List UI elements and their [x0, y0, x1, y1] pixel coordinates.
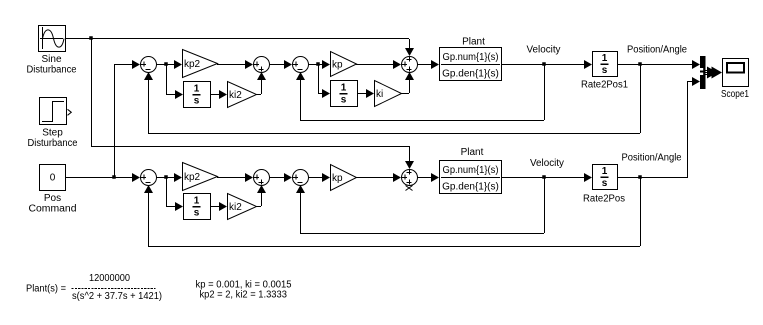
- arrow into Rate2Pos1: [584, 60, 592, 69]
- junction after S1: [164, 62, 168, 66]
- arrow into Rate2Pos: [584, 173, 592, 182]
- svg-text:Plant: Plant: [461, 147, 484, 158]
- junction velocity (bottom): [542, 175, 546, 179]
- svg-text:Gp.den{1}(s): Gp.den{1}(s): [442, 182, 499, 193]
- svg-text:Gp.num{1}(s): Gp.num{1}(s): [443, 52, 499, 63]
- wire integrator to ki2 (bottom): [210, 206, 219, 208]
- wire velocity feedback up into S7: [300, 185, 302, 233]
- sum S5 (bottom position error): [141, 170, 157, 186]
- scope block Scope1: [723, 59, 749, 87]
- wire ki2 output (bottom): [256, 206, 261, 208]
- svg-text:Plant: Plant: [462, 37, 485, 48]
- wire branch down to integrator: [166, 64, 168, 94]
- wire position feedback down (bottom): [640, 177, 642, 246]
- sum S7 (bottom velocity error): [293, 170, 309, 186]
- arrow into sum S2: [245, 60, 253, 69]
- arrow into gain ki (top): [366, 89, 374, 98]
- svg-text:12000000: 12000000: [89, 273, 130, 284]
- arrow into sum S4: [393, 60, 401, 69]
- arrow into sum S2 bottom: [257, 72, 266, 80]
- wire down into top sum4: [409, 39, 411, 49]
- svg-text:ki2: ki2: [229, 202, 242, 213]
- wire into integrator: [166, 94, 175, 96]
- svg-text:s: s: [194, 208, 200, 219]
- arrow into sum S7 bottom (velocity feedback): [296, 185, 305, 193]
- svg-text:Gp.den{1}(s): Gp.den{1}(s): [442, 69, 499, 80]
- vector signal wire mux to scope: [705, 67, 722, 79]
- svg-text:s(s^2 + 37.7s + 1421): s(s^2 + 37.7s + 1421): [72, 291, 162, 302]
- wire sine branch down: [91, 38, 93, 146]
- wire position feedback down (top): [640, 64, 642, 133]
- svg-text:Rate2Pos1: Rate2Pos1: [581, 80, 628, 91]
- wire position feedback up into S1: [148, 80, 150, 133]
- arrow into top sum4 top input: [405, 48, 414, 56]
- wire pos command into top sum1: [114, 64, 132, 66]
- gain kp (bottom): [331, 165, 357, 191]
- wire into integrator (bottom): [166, 206, 175, 208]
- arrow into sum S1 bottom (position feedback): [144, 72, 153, 80]
- svg-text:s: s: [341, 95, 347, 106]
- arrow into sum S3 bottom (velocity feedback): [296, 72, 305, 80]
- wire Plant output Velocity (bottom): [501, 177, 584, 179]
- sum S2 (top PI combine): [254, 57, 270, 73]
- svg-text:Command: Command: [29, 204, 77, 215]
- wire ki2 up to sum S2: [261, 80, 263, 94]
- sum S3 (top velocity error): [293, 57, 309, 73]
- arrow into integrator 1/s (top outer): [175, 90, 183, 99]
- arrow into sum S4 bottom: [405, 72, 414, 80]
- gain ki2 (top): [228, 82, 257, 108]
- arrow into integrator 1/s (bottom): [175, 202, 183, 211]
- sum S8 (bottom disturbance add): [402, 170, 418, 186]
- transfer function block Plant (bottom): [440, 161, 502, 194]
- svg-text:kp: kp: [332, 60, 343, 71]
- svg-text:Position/Angle: Position/Angle: [622, 153, 682, 164]
- wire velocity feedback across (top): [300, 120, 544, 122]
- wire ki up to sum S4: [409, 80, 411, 93]
- arrow into integrator 1/s (top inner): [322, 89, 330, 98]
- wire position (top): [617, 64, 692, 66]
- svg-text:Pos: Pos: [44, 193, 61, 204]
- wire position feedback across (bottom): [148, 246, 640, 248]
- junction pos command branch: [112, 175, 116, 179]
- svg-text:s: s: [602, 178, 608, 189]
- wire integrator to ki2: [210, 94, 219, 96]
- source block Step Disturbance: [40, 98, 67, 125]
- wire sum S7 output: [308, 177, 322, 179]
- wire position (bottom): [617, 177, 688, 179]
- junction after S3: [316, 62, 320, 66]
- arrow into sum S6 bottom: [257, 185, 266, 193]
- arrow into mux input 2: [692, 77, 700, 86]
- wire Plant output Velocity (top): [501, 64, 584, 66]
- unconnected bottom input port of sum S8: [406, 186, 413, 191]
- wire ki2 up to sum S6: [261, 193, 263, 206]
- svg-text:Disturbance: Disturbance: [28, 138, 78, 149]
- gain ki2 (bottom): [228, 194, 257, 220]
- junction sine branch: [89, 36, 93, 40]
- wire branch down to integrator (bottom): [166, 177, 168, 206]
- svg-text:ki2: ki2: [229, 90, 242, 101]
- wire sine to bottom sum4: [91, 146, 409, 148]
- svg-text:Sine: Sine: [41, 54, 61, 65]
- svg-text:Plant(s) =: Plant(s) =: [26, 284, 66, 295]
- svg-text:kp2: kp2: [184, 59, 201, 70]
- transfer function block Plant (top): [440, 48, 502, 81]
- wire sum S4 to Plant: [417, 64, 431, 66]
- svg-text:Gp.num{1}(s): Gp.num{1}(s): [443, 165, 499, 176]
- arrow into sum S8: [393, 173, 401, 182]
- integrator 1/s (bottom): [184, 194, 211, 220]
- arrow into sum S7: [284, 173, 292, 182]
- wire sum S2 to sum S3: [269, 64, 285, 66]
- svg-text:1: 1: [341, 83, 347, 94]
- wire kp2 to sum S6: [217, 177, 245, 179]
- wire kp2 to sum S2: [217, 64, 245, 66]
- svg-text:Disturbance: Disturbance: [27, 65, 77, 76]
- arrow into Plant (bottom): [431, 173, 439, 182]
- wire into mux input 2: [687, 81, 692, 83]
- arrow into bottom sum4 top input: [405, 161, 414, 169]
- annotation fraction bar (dashed): [72, 288, 156, 290]
- wire velocity feedback down (top): [544, 64, 546, 120]
- svg-text:Velocity: Velocity: [527, 45, 561, 56]
- wire pos command up to top loop: [114, 64, 116, 177]
- sum S6 (bottom PI combine): [254, 170, 270, 186]
- wire kp to sum S8: [356, 177, 393, 179]
- svg-text:s: s: [194, 96, 200, 107]
- wire sum S5 output: [156, 177, 174, 179]
- svg-text:ki: ki: [376, 89, 383, 100]
- integrator Rate2Pos1: [593, 52, 618, 77]
- svg-text:Velocity: Velocity: [530, 158, 564, 169]
- wire branch down to inner integrator: [318, 64, 320, 93]
- wire velocity feedback across (bottom): [300, 233, 544, 235]
- sum S1 (top position error): [141, 57, 157, 73]
- wire sum S1 output: [156, 64, 174, 66]
- integrator 1/s (top outer): [184, 82, 211, 108]
- svg-text:1: 1: [602, 53, 608, 64]
- svg-text:s: s: [602, 65, 608, 76]
- arrow into top sum1: [132, 60, 140, 69]
- gain kp2 (bottom): [183, 163, 218, 191]
- wire position feedback up into S5: [148, 185, 150, 246]
- arrow into gain kp2 (top): [174, 60, 182, 69]
- wire kp to sum S4: [356, 64, 393, 66]
- arrow into gain ki2 (top): [219, 90, 227, 99]
- junction position (top): [638, 62, 642, 66]
- wire sine output to top sum4: [65, 38, 409, 40]
- source block Sine Disturbance: [39, 26, 66, 52]
- integrator 1/s (top inner): [331, 81, 358, 107]
- svg-text:Scope1: Scope1: [721, 89, 749, 100]
- svg-text:1: 1: [602, 166, 608, 177]
- arrow into sum S5 bottom (position feedback): [144, 185, 153, 193]
- wire integrator to ki: [357, 93, 366, 95]
- wire velocity feedback up into S3: [300, 80, 302, 120]
- arrow into sum S3: [284, 60, 292, 69]
- wire ki2 output: [256, 94, 261, 96]
- mux block: [700, 56, 706, 89]
- wire velocity feedback down (bottom): [544, 177, 546, 233]
- wire ki output: [401, 93, 409, 95]
- arrow into gain ki2 (bottom): [219, 202, 227, 211]
- svg-text:Step: Step: [42, 128, 63, 139]
- wire sum S8 to Plant (bottom): [417, 177, 431, 179]
- arrow into gain kp (bottom): [322, 173, 330, 182]
- arrow into Plant (top): [431, 60, 439, 69]
- arrow into gain kp (top): [322, 60, 330, 69]
- svg-text:kp2: kp2: [184, 172, 201, 183]
- arrow into bottom sum1: [132, 173, 140, 182]
- svg-text:Position/Angle: Position/Angle: [627, 45, 687, 56]
- source block Pos Command (constant 0): [40, 165, 66, 191]
- svg-text:kp: kp: [332, 173, 343, 184]
- integrator Rate2Pos: [593, 165, 618, 190]
- wire sum S3 output: [308, 64, 322, 66]
- arrow into mux input 1: [692, 60, 700, 69]
- svg-text:Rate2Pos: Rate2Pos: [583, 194, 625, 205]
- wire pos command output: [66, 177, 132, 179]
- svg-text:0: 0: [50, 173, 56, 184]
- gain kp (top): [331, 52, 357, 77]
- wire down into bottom sum4: [409, 146, 411, 161]
- unconnected output port of Step Disturbance: [68, 109, 72, 115]
- junction after S5: [164, 175, 168, 179]
- junction velocity (top): [542, 62, 546, 66]
- wire position up to mux: [687, 81, 689, 177]
- junction position (bottom): [638, 175, 642, 179]
- wire into inner integrator: [318, 93, 322, 95]
- arrow into gain kp2 (bottom): [174, 173, 182, 182]
- svg-text:1: 1: [194, 196, 200, 207]
- svg-text:kp2 = 2, ki2 = 1.3333: kp2 = 2, ki2 = 1.3333: [199, 290, 287, 301]
- svg-text:1: 1: [194, 84, 200, 95]
- arrow into sum S6: [245, 173, 253, 182]
- wire sum S6 to sum S7: [269, 177, 285, 179]
- gain ki (top): [375, 81, 402, 107]
- gain kp2 (top): [183, 50, 218, 78]
- wire position feedback across (top): [148, 133, 640, 135]
- sum S4 (top disturbance add): [402, 57, 418, 73]
